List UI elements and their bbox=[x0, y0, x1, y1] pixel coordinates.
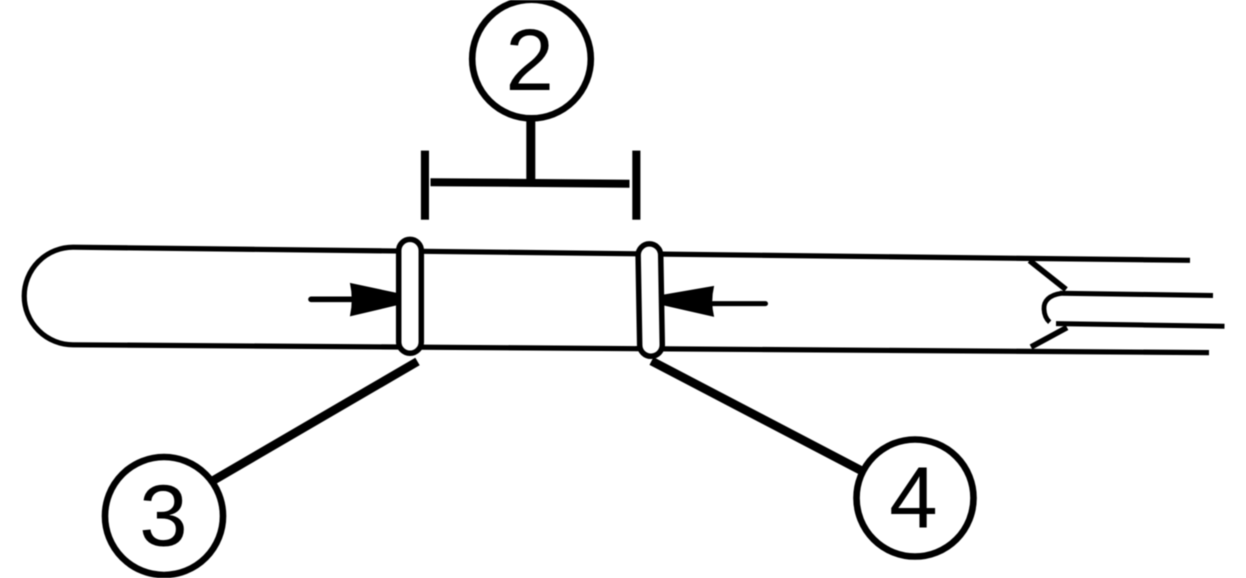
left arrow tail bbox=[311, 296, 356, 302]
stem from bar to callout 2 bbox=[526, 119, 535, 186]
callout circle 4 bbox=[857, 440, 974, 557]
dimension left tick bbox=[421, 151, 429, 220]
svg-text:3: 3 bbox=[139, 468, 187, 565]
svg-text:2: 2 bbox=[506, 12, 554, 109]
lower neck diagonal at right end bbox=[1031, 328, 1067, 348]
inner cable bottom line bbox=[1056, 324, 1225, 327]
upper neck diagonal at right end bbox=[1030, 261, 1067, 290]
callout circle 2 bbox=[472, 0, 591, 118]
svg-text:4: 4 bbox=[889, 450, 937, 547]
dimension horizontal bar bbox=[431, 178, 630, 188]
dimension right tick bbox=[632, 151, 640, 220]
inner cable rounded left cap bbox=[1044, 293, 1061, 322]
marker band 4 (right white capsule) bbox=[638, 244, 663, 357]
right arrow tail bbox=[713, 301, 766, 306]
left arrowhead bbox=[351, 284, 399, 316]
leader line to callout 3 bbox=[190, 362, 418, 495]
right arrowhead bbox=[664, 287, 714, 317]
marker band 3 (left white capsule) bbox=[399, 239, 422, 353]
callout circle 3 bbox=[105, 457, 223, 575]
sleeve tube body (left rounded cap, top and bottom lines) bbox=[24, 247, 1209, 352]
leader line to callout 4 bbox=[652, 361, 886, 483]
inner cable top line bbox=[1060, 293, 1213, 295]
